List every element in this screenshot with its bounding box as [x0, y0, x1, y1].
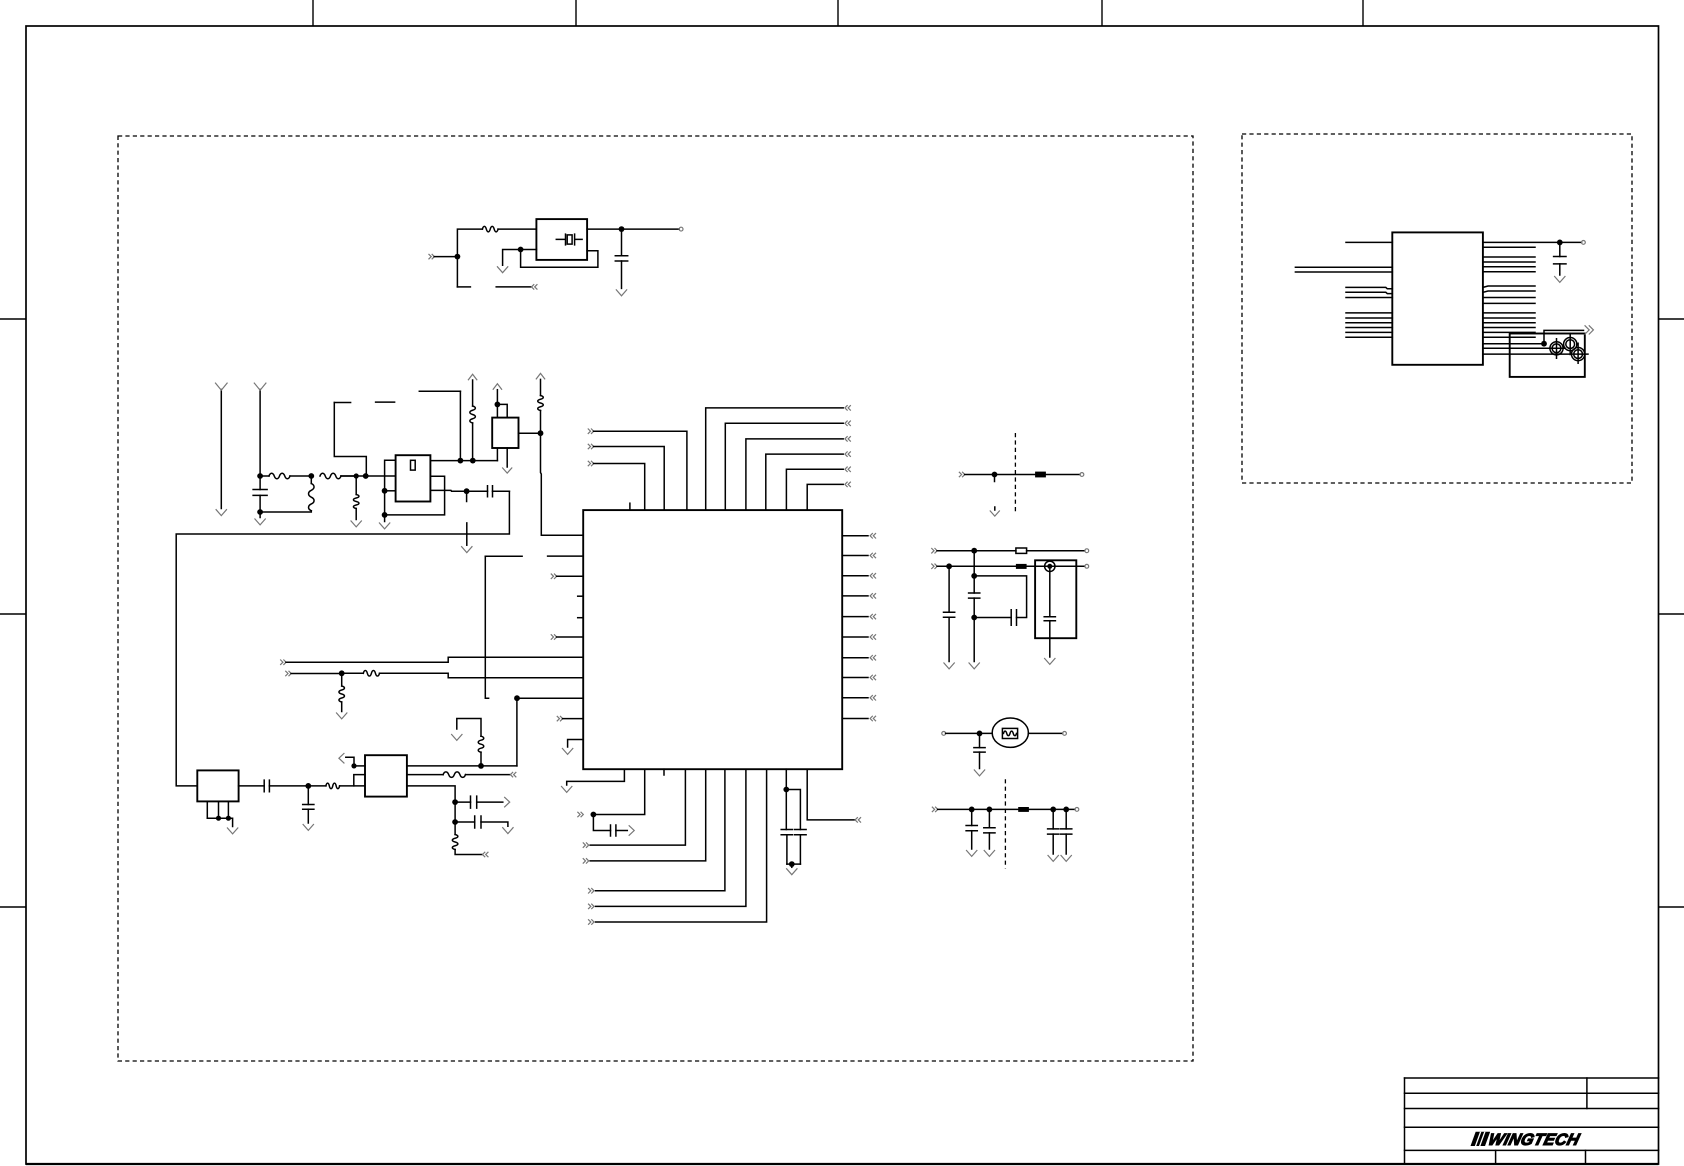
wire FB3 through module to pin: [1027, 565, 1085, 567]
net segment S4 (pin L2 label gap): [485, 555, 522, 557]
wire C3 to corner: [493, 490, 510, 492]
wire S1 down to node H: [334, 403, 366, 477]
wire U2 feedback loop: [385, 476, 445, 515]
coil CL3: [1572, 348, 1585, 361]
node AI junction: [1557, 240, 1563, 246]
wire U1 pin B10 to port P23: [807, 769, 855, 820]
ground G3: [259, 512, 261, 518]
wire U1 pin R9 to port: [842, 697, 868, 699]
port P5: [588, 429, 594, 434]
capacitor C10: [973, 576, 975, 593]
ground G14: [974, 770, 985, 776]
wire U1 pin T5 to port P7: [725, 423, 843, 510]
node G junction: [354, 473, 359, 478]
wire FB5 bottom-right pin: [407, 786, 455, 802]
wire U4 pin R3: [1483, 256, 1535, 258]
fork symbol N1 top: [215, 383, 227, 391]
capacitor C9 (series): [1011, 610, 1016, 626]
node AH junction: [452, 819, 458, 825]
ground G6: [336, 713, 347, 719]
wire U4 pin TL3: [1295, 271, 1392, 273]
wire C4 to arrow: [616, 830, 627, 832]
port P2: [532, 284, 538, 289]
inductor L4 (node Q to gnd): [341, 673, 343, 686]
wire U1 pin T6 to port P8: [746, 439, 843, 510]
port P13: [551, 634, 557, 639]
wire L1 bottom to node E: [260, 511, 311, 512]
wire node A riser: [457, 229, 482, 287]
wire U1 pin R6 to port: [842, 636, 868, 638]
port P3: [588, 461, 594, 466]
wire rail riser to U3: [496, 448, 498, 461]
wire R4 to node L: [472, 423, 474, 461]
port PR10: [870, 716, 876, 721]
node AA junction: [977, 731, 983, 737]
wire U1 pin T4 to port P6: [706, 408, 844, 510]
capacitor C18 (series): [455, 801, 470, 803]
wire U1 pin R3 to port: [842, 575, 868, 577]
ground G7: [562, 748, 573, 754]
coil CL2: [1564, 338, 1577, 351]
regulator U2 box: [396, 455, 431, 501]
wire P27 rail: [938, 808, 1019, 810]
pin circle O3: [1085, 564, 1089, 568]
wire P4 to U1 (pin T2): [594, 447, 665, 511]
ground stub G10: [994, 507, 996, 510]
ground G17: [451, 734, 462, 740]
port PR5: [870, 614, 876, 619]
wire U4 pin MR1 (jogged): [1483, 286, 1535, 287]
node AC junction: [226, 816, 231, 821]
port P8: [845, 436, 851, 441]
node U junction: [789, 861, 795, 867]
port P4: [588, 444, 594, 449]
wire C18 to arrow A4: [477, 801, 503, 803]
node L junction: [470, 458, 476, 464]
node AF junction: [478, 763, 484, 769]
capacitor C15: [1065, 809, 1067, 829]
wire U4 pin LL2: [1346, 317, 1392, 319]
inductor L1: [310, 476, 312, 484]
wire P14 to U1 pin L7: [286, 657, 583, 662]
wire node A lower branch: [457, 286, 470, 288]
port P16: [557, 716, 563, 721]
wire U1 pin B2: [593, 769, 644, 814]
wire U4 pin R6: [1483, 271, 1535, 273]
wire FB5 bottom-left pin: [354, 775, 365, 786]
port P18: [583, 842, 589, 847]
wire node C to ground stub: [503, 250, 521, 266]
port P28: [510, 772, 516, 777]
capacitor C12: [971, 809, 973, 825]
wire PW1 down: [472, 380, 474, 406]
wire U1 pin B5 to port P19: [590, 769, 706, 861]
wire U1 pin T7 to port P9: [766, 454, 843, 510]
ground G8: [561, 786, 572, 792]
ground G-C15: [1061, 855, 1072, 861]
wire U1 pin L2 stub: [548, 555, 584, 557]
separator dashed line D2: [1004, 779, 1006, 868]
ground G9: [791, 864, 793, 867]
wire J1 pin c: [227, 801, 229, 818]
ground G1: [616, 289, 627, 295]
capacitor C5: [785, 790, 787, 830]
capacitor C13: [988, 809, 990, 827]
wire U1 pin R5 to port: [842, 616, 868, 618]
ground G2: [497, 266, 508, 272]
resistor R5: [480, 752, 482, 766]
WINGTECH logo: [1471, 1132, 1583, 1146]
wire node AG down: [454, 802, 456, 822]
wire U4 pin LL1: [1346, 312, 1392, 314]
node V junction: [992, 472, 998, 478]
resistor R2: [260, 475, 269, 477]
node E junction: [257, 509, 263, 515]
wire U4 pin MR3: [1483, 297, 1535, 299]
node C (crystal gnd pins): [518, 247, 524, 253]
pin circle O6: [1075, 808, 1079, 812]
wire long return bus: [176, 491, 509, 786]
wire U4 pin LR3: [1483, 322, 1535, 324]
stub below node V: [994, 475, 996, 482]
port P20: [588, 888, 594, 893]
wire node Z to ground: [973, 618, 975, 662]
node C15n junction: [1063, 807, 1069, 813]
wire U4 pin BR1 to node AJ: [1483, 343, 1544, 345]
wire P3 to U1 (pin T1): [594, 464, 645, 511]
capacitor C3 (series): [488, 486, 493, 497]
net segment S3: [419, 390, 460, 392]
crystal module Y1 box: [536, 219, 587, 260]
wire U4 pin ML3: [1346, 297, 1392, 299]
wire C16 to node AD: [269, 785, 308, 787]
wire J1 pin a: [206, 801, 208, 818]
capacitor C17: [307, 786, 309, 805]
port P19: [583, 858, 589, 863]
wire P5 to U1 (pin T3): [594, 431, 687, 510]
wire U4 pin ML2 (jogged): [1346, 292, 1392, 293]
ground G-C12: [966, 850, 977, 856]
wire U4 pin LL3: [1346, 322, 1392, 324]
wire L5 to FB5: [340, 785, 365, 787]
ground G20: [351, 521, 362, 527]
port P21: [588, 904, 594, 909]
wire P12 to U1 pin L3: [557, 575, 584, 577]
fork symbol N2 top: [254, 383, 266, 391]
capacitor C11: [979, 733, 981, 747]
node S junction: [591, 812, 597, 818]
wire node N to U3 pins: [497, 404, 507, 417]
wire node R to U1 pin L9: [517, 697, 583, 699]
wire P13 to U1 pin L6: [557, 636, 584, 638]
wire FB1 to pin: [1046, 474, 1080, 476]
ground G15: [227, 828, 238, 834]
ground G19: [1554, 276, 1565, 282]
wire O4 to node AA: [946, 732, 993, 734]
capacitor C16 (series): [264, 780, 269, 792]
wire C1 to ground: [621, 261, 623, 288]
crystal symbol inside Y1: [556, 234, 582, 245]
wire stub to port P2: [496, 286, 531, 288]
node F junction: [308, 473, 314, 479]
wire U1 pin R8 to port: [842, 677, 868, 679]
wire J1 out: [239, 785, 265, 787]
node C14n junction: [1050, 807, 1056, 813]
wire node G-H to regulator U2: [341, 475, 396, 477]
port P14: [280, 660, 286, 665]
node Z junction: [971, 615, 977, 621]
wire U1 pin B7 to port P21: [596, 769, 746, 906]
node D junction: [257, 473, 263, 479]
wire FB5 top-left pin to node AE: [354, 765, 365, 767]
capacitor C7 (inside M1): [1049, 566, 1051, 616]
wire FB2 to pin: [1027, 550, 1085, 552]
capacitor C19 (series): [455, 821, 475, 823]
capacitor C4 (series): [611, 825, 616, 836]
wire U1 pin B8 to port P22: [596, 769, 767, 922]
wire VR1 to pin circle O5: [1028, 732, 1062, 734]
ferrite bead module FB5 box: [365, 755, 407, 796]
wire J1 pin b: [218, 801, 220, 818]
arrow A1 (output): [502, 468, 512, 474]
ground G12: [944, 663, 955, 669]
wire U3 bottom arrow: [506, 448, 508, 467]
port P1 (crystal enable input): [429, 254, 435, 259]
node Y junction: [971, 573, 977, 579]
test point TP1 (circle-dot): [1045, 561, 1055, 571]
wire pin join rail: [207, 817, 228, 819]
ground G18: [502, 827, 513, 833]
inductor L5: [308, 785, 326, 787]
port P10: [845, 467, 851, 472]
node X junction: [946, 563, 952, 569]
wire C19 to ground: [481, 822, 508, 826]
port P24: [959, 472, 965, 477]
coil CL1: [1550, 342, 1563, 355]
port P6: [845, 405, 851, 410]
node C12n junction: [969, 807, 975, 813]
wire Y1 shield loop: [521, 250, 598, 268]
wire U4 pin LL6: [1346, 336, 1392, 338]
wire U1 pin R4 to port: [842, 595, 868, 597]
net segment S1: [334, 402, 350, 404]
connector J1 box: [197, 770, 238, 801]
ground G-C13: [984, 850, 995, 856]
ground G-C14: [1048, 855, 1059, 861]
antenna module AN1 box: [1510, 334, 1585, 377]
wire P25 rail: [937, 550, 1016, 552]
wire U3 right pin to node O: [519, 432, 541, 434]
node O junction: [538, 430, 544, 436]
capacitor C20: [1559, 242, 1561, 256]
node H junction: [363, 473, 369, 479]
node AG junction: [452, 799, 458, 805]
node AE junction: [351, 763, 356, 768]
IC U4 box: [1392, 232, 1483, 364]
node A junction: [455, 254, 461, 260]
ground G16: [303, 824, 314, 830]
pin circle O1: [1080, 473, 1084, 477]
wire U2 out pin to cap C3: [430, 489, 487, 492]
port P26: [931, 564, 937, 569]
capacitor C14: [1052, 809, 1054, 829]
output pin circle: [679, 227, 683, 231]
net segment S2 (floating): [376, 401, 395, 403]
node R junction: [514, 695, 520, 701]
ferrite bead FB4: [1018, 807, 1029, 812]
wire U4 pin LR4: [1483, 327, 1535, 329]
wire L3 to U1 pin L8: [380, 673, 584, 678]
node N junction: [495, 402, 501, 408]
wire U2 top-left pin to gnd riser: [385, 460, 396, 515]
wire U4 pin TL2: [1295, 266, 1392, 268]
ground G11: [1044, 658, 1055, 664]
ferrite bead FB3: [1016, 564, 1027, 569]
wire U1 pin B6 to port P20: [596, 769, 725, 891]
wire U1 pin B9: [785, 769, 787, 789]
inductor L2: [538, 396, 544, 411]
wire C9 to node Z: [974, 617, 1011, 619]
varistor VR1 (ellipse component): [992, 718, 1028, 747]
node AD junction: [305, 783, 311, 789]
wire riser to node R: [516, 698, 518, 766]
port P25: [931, 548, 937, 553]
ferrite bead FB2 (open): [1016, 548, 1027, 553]
wire U4 pin LR2: [1483, 317, 1535, 319]
port PR7: [870, 655, 876, 660]
port P15: [285, 671, 291, 676]
wire U4 pin LR1: [1483, 312, 1535, 314]
pin circle O5: [1063, 732, 1067, 736]
wire L2 to node O: [540, 411, 542, 434]
port P27: [932, 807, 938, 812]
separator dashed line D1: [1014, 433, 1016, 513]
pin circle O4: [942, 732, 946, 736]
wire S4 riser: [485, 556, 488, 698]
node I junction: [382, 488, 388, 494]
wire U4 pin LR5: [1483, 331, 1535, 333]
resistor R1: [482, 226, 498, 232]
wire U4 pin LR6: [1483, 336, 1535, 338]
wire U4 pin ML1 (jogged): [1346, 287, 1392, 288]
capacitor C6: [786, 790, 800, 830]
wire PW2 to node N: [496, 390, 498, 405]
pin stub L4: [578, 595, 584, 597]
wire node B to output pin: [622, 228, 680, 230]
power arrow PW1: [468, 374, 477, 380]
pin stub L5: [578, 617, 584, 619]
node W junction: [971, 548, 977, 554]
port P23: [855, 817, 861, 822]
port PR4: [870, 593, 876, 598]
resistor R3: [320, 473, 341, 479]
wire U4 pin R2: [1483, 246, 1535, 248]
capacitor C8: [948, 566, 950, 612]
wire R1 to crystal box: [498, 228, 536, 230]
power arrow PW3: [536, 373, 545, 379]
wire node C to Y1 pin: [521, 249, 537, 251]
port PR9: [870, 695, 876, 700]
net stub N2 (antenna line 2): [259, 390, 261, 477]
node J junction: [382, 512, 388, 518]
wire R7 to port P29: [455, 850, 482, 855]
wire U4 pin TL1: [1346, 241, 1392, 243]
wire P15 to node Q: [291, 673, 342, 675]
port P7: [845, 421, 851, 426]
power arrow PW2: [493, 384, 502, 390]
node M junction: [464, 488, 470, 494]
ground G13: [969, 663, 980, 669]
port P30: [1585, 325, 1594, 334]
wire U4 pin MR2 (jogged): [1483, 291, 1535, 292]
port P9: [845, 451, 851, 456]
wire P16 to U1 pin L10: [563, 718, 584, 720]
port PR1: [870, 533, 876, 538]
inductor L3: [342, 672, 364, 674]
node AB junction: [216, 816, 221, 821]
wire node AJ to port P30: [1544, 330, 1584, 343]
wire U4 pin R5: [1483, 266, 1535, 268]
arrow A2 (right-pointing port): [629, 825, 635, 835]
wire U1 pin R1 to port: [842, 535, 868, 537]
title block: [1404, 1078, 1406, 1164]
port PR6: [870, 634, 876, 639]
wire U1 pin R2 to port: [842, 555, 868, 557]
inductor L6 (node G to gnd): [355, 476, 357, 495]
node B junction: [619, 226, 625, 232]
pin-1 mark inside U2: [411, 460, 416, 470]
port P11: [845, 482, 851, 487]
wire P26 rail: [937, 565, 1016, 567]
ground G4: [384, 515, 386, 522]
port P29: [483, 852, 489, 857]
arrow A3 (left-pointing): [339, 753, 345, 763]
ferrite bead FB1: [1035, 472, 1046, 478]
port PR2: [870, 553, 876, 558]
main IC U1 box: [583, 510, 842, 769]
wire node AE to arrow: [346, 757, 354, 766]
wire U1 pin T9 to port P11: [807, 484, 843, 510]
stub below node M: [466, 491, 468, 501]
wire P24 to FB1: [965, 474, 1035, 476]
wire U4 pin LL4: [1346, 327, 1392, 329]
wire U4 pin BR2: [1483, 347, 1563, 349]
wire node S to C4: [593, 815, 610, 831]
wire S3 down to rail: [459, 391, 461, 460]
module M1 box: [1035, 560, 1076, 638]
component U3 box: [492, 418, 518, 448]
wire U1 pin B1 to ground: [567, 769, 625, 785]
pin stub T0: [629, 503, 631, 510]
node K junction: [458, 458, 464, 464]
port P12: [551, 574, 557, 579]
node C13n junction: [987, 807, 993, 813]
wire U1 pin T8 to port P10: [786, 469, 843, 510]
wire U1 pin B4 to port P18: [590, 769, 685, 845]
wire U1 pin L11 to ground: [568, 740, 584, 748]
port P17: [577, 812, 583, 817]
port PR3: [870, 573, 876, 578]
wire PW3 down: [540, 379, 542, 395]
wire U1 pin R10 to port: [842, 718, 868, 720]
capacitor C1: [621, 229, 623, 256]
net stub N1 (antenna line 1): [220, 390, 222, 509]
wire rail to ground: [228, 818, 232, 826]
resistor R6: [407, 774, 443, 776]
resistor R7: [454, 822, 456, 835]
node T junction: [783, 787, 789, 793]
wire C5/C6 join: [787, 863, 801, 865]
